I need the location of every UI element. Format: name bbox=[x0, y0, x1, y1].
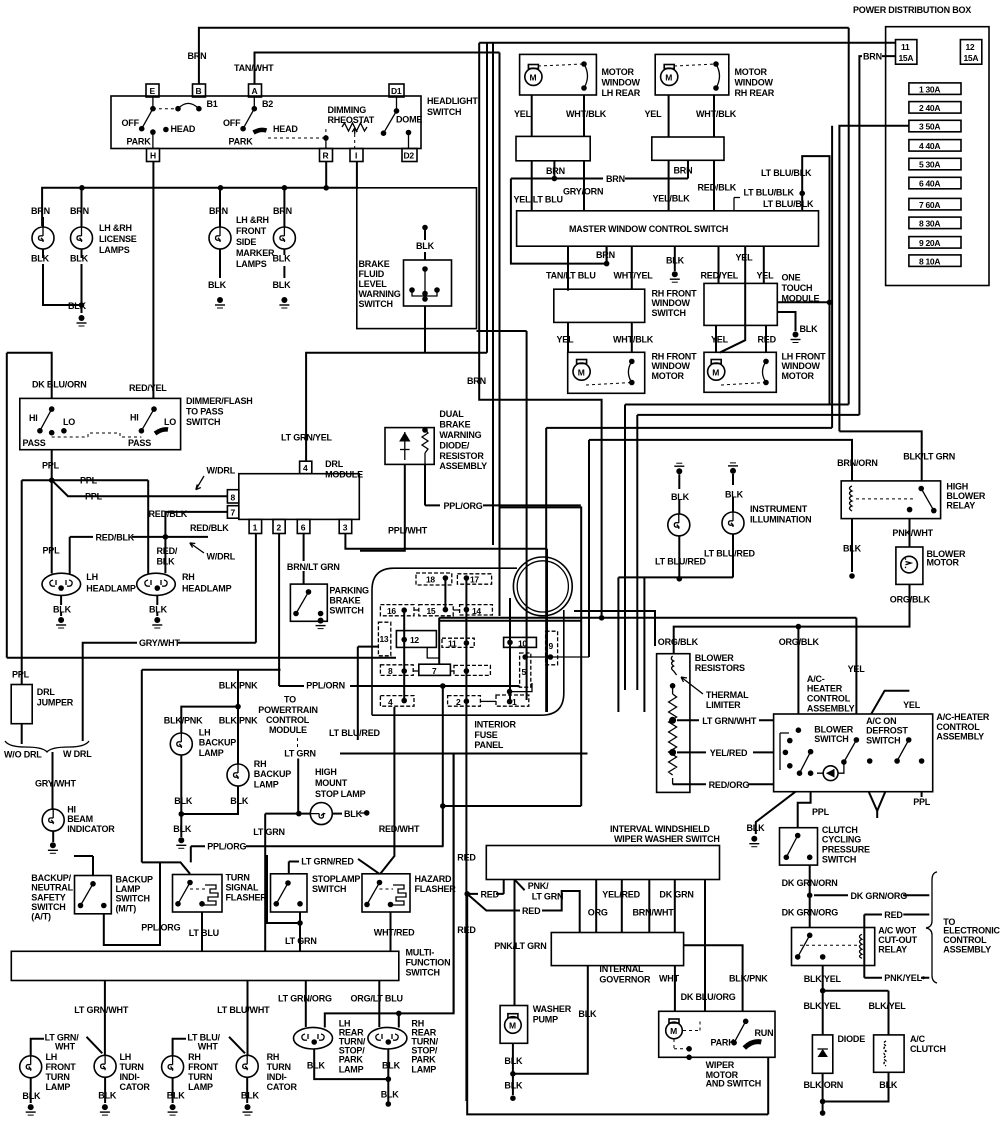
fuse 9 20A bbox=[909, 237, 961, 249]
svg-text:SWITCH: SWITCH bbox=[652, 308, 686, 318]
LH front turn lamp bbox=[20, 1032, 80, 1115]
wire maze vertical x589 bbox=[588, 440, 590, 657]
svg-text:AND SWITCH: AND SWITCH bbox=[706, 1078, 762, 1088]
svg-text:BLK/PNK: BLK/PNK bbox=[729, 974, 768, 984]
RH rear motor wires YEL / WHT-BLK bbox=[645, 95, 737, 137]
LH turn indicator bbox=[87, 1037, 151, 1115]
svg-text:LT GRN: LT GRN bbox=[285, 936, 317, 946]
svg-text:SWITCH: SWITCH bbox=[312, 884, 346, 894]
DRL pin 4 bbox=[300, 461, 312, 474]
svg-text:BLK: BLK bbox=[157, 557, 176, 567]
svg-text:PPL: PPL bbox=[12, 670, 30, 680]
svg-text:CONTROL: CONTROL bbox=[807, 694, 851, 704]
svg-text:11: 11 bbox=[448, 638, 457, 648]
svg-text:LAMP: LAMP bbox=[339, 1064, 364, 1074]
RH rear turn/stop/park lamp bbox=[368, 1019, 439, 1107]
svg-text:LT BLU/RED: LT BLU/RED bbox=[329, 728, 381, 738]
motor window LH rear bbox=[520, 54, 641, 98]
ORG pin bbox=[588, 880, 608, 933]
wire BRN from terminal B to power box bbox=[188, 28, 849, 84]
svg-text:WASHER: WASHER bbox=[533, 1004, 572, 1014]
backup lamp switch (M/T) label bbox=[116, 875, 153, 914]
svg-text:15: 15 bbox=[427, 606, 436, 616]
svg-text:BRN: BRN bbox=[863, 52, 882, 62]
svg-text:CLUTCH: CLUTCH bbox=[822, 825, 858, 835]
svg-text:BLK: BLK bbox=[578, 1009, 597, 1019]
svg-text:LT BLU/BLK: LT BLU/BLK bbox=[761, 168, 812, 178]
svg-text:LAMP: LAMP bbox=[411, 1064, 436, 1074]
fuse 6i bbox=[454, 665, 490, 676]
svg-text:BLK: BLK bbox=[416, 241, 435, 251]
svg-text:GRY/ORN: GRY/ORN bbox=[563, 187, 603, 197]
GRY/WHT label and HI BEAM INDICATOR bbox=[35, 779, 115, 854]
svg-text:BRN/ORN: BRN/ORN bbox=[837, 458, 878, 468]
svg-text:ILLUMINATION: ILLUMINATION bbox=[750, 514, 811, 524]
svg-text:HAZARD: HAZARD bbox=[415, 874, 452, 884]
svg-text:A: A bbox=[252, 86, 258, 96]
svg-text:LT GRN/ORG: LT GRN/ORG bbox=[278, 994, 332, 1004]
svg-text:BLK/YEL: BLK/YEL bbox=[869, 1001, 907, 1011]
wires down to master switch bbox=[532, 160, 737, 211]
svg-text:HI: HI bbox=[29, 413, 38, 423]
svg-text:OFF: OFF bbox=[223, 118, 241, 128]
YEL wire from y618 down to AC assembly bbox=[848, 618, 866, 714]
svg-text:W/O DRL: W/O DRL bbox=[4, 750, 42, 760]
svg-text:MULTI-: MULTI- bbox=[406, 948, 435, 958]
svg-text:SWITCH: SWITCH bbox=[329, 605, 363, 615]
svg-text:MOUNT: MOUNT bbox=[315, 778, 348, 788]
svg-text:16: 16 bbox=[387, 606, 396, 616]
fuse 8 30A bbox=[909, 217, 961, 229]
svg-text:WHT/BLK: WHT/BLK bbox=[566, 109, 607, 119]
svg-text:YEL/LT BLU: YEL/LT BLU bbox=[514, 195, 563, 205]
svg-text:MASTER WINDOW CONTROL SWITC: MASTER WINDOW CONTROL SWITCH bbox=[569, 224, 728, 234]
blower resistors bbox=[657, 653, 745, 793]
interior fuse panel label bbox=[474, 719, 516, 750]
svg-text:14: 14 bbox=[472, 606, 481, 616]
ORG/BLK wire into blower switch bbox=[779, 627, 820, 714]
svg-text:BRN: BRN bbox=[467, 376, 486, 386]
fuse 12 15A bbox=[960, 40, 981, 65]
svg-text:LH REAR: LH REAR bbox=[602, 88, 641, 98]
wire from I down to brake warning box bbox=[356, 162, 358, 190]
BRN wire joining connectors bbox=[511, 160, 693, 184]
WHT/YEL pin bbox=[614, 246, 654, 289]
svg-text:BLK: BLK bbox=[273, 280, 292, 290]
PNK/WHT wire to blower motor bbox=[892, 519, 933, 547]
svg-text:YEL/BLK: YEL/BLK bbox=[653, 194, 691, 204]
svg-text:DIMMER/FLASH: DIMMER/FLASH bbox=[186, 396, 253, 406]
svg-text:TAN/LT BLU: TAN/LT BLU bbox=[546, 270, 596, 280]
svg-text:3: 3 bbox=[343, 523, 348, 533]
svg-text:RH REAR: RH REAR bbox=[735, 88, 775, 98]
svg-text:LAMP: LAMP bbox=[188, 1082, 213, 1092]
wire from DRL pin 2 PPL/ORN bbox=[279, 534, 345, 691]
fuse 1 30A bbox=[909, 83, 961, 95]
wire maze horizontal y440 BRN/ORN to relay bbox=[589, 440, 852, 481]
PPL wires from dimmer bbox=[12, 450, 227, 685]
svg-text:MODULE: MODULE bbox=[325, 470, 363, 480]
YEL/RED tap bbox=[677, 748, 774, 758]
svg-text:DK GRN/ORG: DK GRN/ORG bbox=[851, 891, 908, 901]
svg-text:INDI-: INDI- bbox=[120, 1072, 140, 1082]
svg-text:LT BLU/WHT: LT BLU/WHT bbox=[217, 1005, 270, 1015]
svg-text:H: H bbox=[150, 151, 156, 161]
svg-text:LO: LO bbox=[63, 417, 75, 427]
svg-text:M: M bbox=[578, 367, 585, 377]
fuse 7 60A bbox=[909, 198, 961, 210]
svg-text:DUAL: DUAL bbox=[439, 409, 464, 419]
svg-text:RED/WHT: RED/WHT bbox=[379, 824, 420, 834]
svg-text:D2: D2 bbox=[404, 151, 415, 161]
svg-text:BLK: BLK bbox=[504, 1080, 523, 1090]
svg-text:CATOR: CATOR bbox=[267, 1082, 298, 1092]
washer pump bbox=[500, 1004, 572, 1101]
svg-text:INDI-: INDI- bbox=[267, 1072, 287, 1082]
svg-text:12: 12 bbox=[966, 42, 975, 52]
svg-text:LO: LO bbox=[164, 417, 176, 427]
DRL pin 3 bbox=[339, 519, 352, 533]
svg-text:PPL/ORN: PPL/ORN bbox=[306, 681, 345, 691]
DRL pin 1 bbox=[249, 519, 262, 533]
fuse 16 bbox=[380, 605, 414, 616]
wire vertical x493 bbox=[492, 43, 494, 545]
svg-text:TURN: TURN bbox=[46, 1072, 70, 1082]
svg-text:FLUID: FLUID bbox=[359, 269, 385, 279]
svg-text:10: 10 bbox=[518, 638, 527, 648]
multifn pin ORG/LT BLU bbox=[351, 981, 403, 1028]
RH license lamp bbox=[70, 188, 93, 313]
svg-text:MOTOR: MOTOR bbox=[782, 371, 815, 381]
line y658 from left rail bbox=[7, 657, 396, 659]
svg-text:RH: RH bbox=[267, 1052, 280, 1062]
governor bottom pin WHT bbox=[659, 966, 680, 1012]
svg-text:MOTOR: MOTOR bbox=[927, 557, 960, 567]
ORG/BLK wire from blower motor bbox=[658, 584, 931, 653]
svg-text:ASSEMBLY: ASSEMBLY bbox=[936, 732, 984, 742]
svg-text:RESISTORS: RESISTORS bbox=[695, 663, 745, 673]
svg-text:BRN: BRN bbox=[596, 250, 615, 260]
right lamp bbox=[704, 463, 811, 578]
svg-text:2 40A: 2 40A bbox=[919, 103, 940, 113]
fuse 5 30A bbox=[909, 158, 961, 170]
svg-text:A/C: A/C bbox=[910, 1034, 926, 1044]
PPL wire from AC box to clutch switch bbox=[798, 792, 830, 828]
svg-text:DEFROST: DEFROST bbox=[866, 726, 908, 736]
BLK/YEL wire from relay bbox=[804, 966, 907, 1035]
svg-text:BLK: BLK bbox=[307, 1061, 326, 1071]
fuse 12 bbox=[396, 631, 439, 665]
svg-text:HEADLIGHT: HEADLIGHT bbox=[427, 96, 478, 106]
svg-text:A/C-HEATER: A/C-HEATER bbox=[936, 712, 990, 722]
svg-text:BRN: BRN bbox=[674, 166, 693, 176]
svg-text:INDICATOR: INDICATOR bbox=[67, 824, 115, 834]
stoplamp output LT GRN bbox=[267, 855, 317, 951]
svg-text:RED/BLK: RED/BLK bbox=[96, 532, 135, 542]
svg-text:SIDE: SIDE bbox=[236, 237, 256, 247]
svg-text:WINDOW: WINDOW bbox=[602, 78, 641, 88]
svg-text:PPL: PPL bbox=[913, 797, 931, 807]
RED rail x453 labels bbox=[454, 754, 477, 1014]
wire maze horizontal y428 bbox=[546, 427, 832, 429]
svg-text:BLK: BLK bbox=[273, 254, 292, 264]
svg-text:ORG/BLK: ORG/BLK bbox=[779, 637, 820, 647]
svg-text:YEL: YEL bbox=[645, 109, 663, 119]
svg-text:ONE: ONE bbox=[782, 273, 801, 283]
svg-text:W/DRL: W/DRL bbox=[207, 465, 236, 475]
YEL wire top right of AC box bbox=[871, 691, 921, 714]
svg-text:RH: RH bbox=[254, 759, 267, 769]
svg-text:RH: RH bbox=[188, 1052, 201, 1062]
governor right pin BLK/PNK bbox=[684, 945, 769, 1011]
wire from fuse 3 bbox=[839, 126, 909, 432]
fuse panel pass-through verticals bbox=[546, 549, 548, 712]
DK GRN pin bbox=[659, 880, 693, 933]
svg-text:CONTROL: CONTROL bbox=[943, 935, 987, 945]
svg-text:M: M bbox=[670, 1026, 677, 1036]
svg-text:18: 18 bbox=[426, 575, 435, 585]
one touch right edge wires bbox=[777, 300, 832, 343]
svg-text:E: E bbox=[150, 86, 156, 96]
svg-text:YEL: YEL bbox=[757, 270, 775, 280]
svg-text:YEL/RED: YEL/RED bbox=[602, 889, 640, 899]
terminal D1 bbox=[389, 84, 404, 97]
PPL/WHT wire from diode bbox=[360, 464, 428, 550]
svg-text:BRN: BRN bbox=[70, 206, 89, 216]
fuse panel internal column wires bbox=[444, 578, 446, 610]
svg-text:PASS: PASS bbox=[23, 438, 46, 448]
fuse 13 bbox=[378, 622, 390, 656]
brake fluid level warning switch bbox=[359, 225, 452, 353]
svg-text:DK GRN/ORG: DK GRN/ORG bbox=[782, 907, 839, 917]
svg-text:SIGNAL: SIGNAL bbox=[226, 882, 260, 892]
svg-text:FUNCTION: FUNCTION bbox=[406, 957, 451, 967]
DRL pin 2 bbox=[273, 519, 285, 533]
svg-text:WHT/BLK: WHT/BLK bbox=[613, 334, 654, 344]
wire from column to blower resistor feed bbox=[574, 611, 655, 646]
svg-text:TAN/WHT: TAN/WHT bbox=[234, 63, 274, 73]
svg-text:HIGH: HIGH bbox=[315, 767, 337, 777]
line into fuse 13 from left y646 bbox=[358, 647, 379, 740]
horizontal y686 PPL/ORN line bbox=[350, 683, 581, 846]
svg-text:BACKUP: BACKUP bbox=[254, 769, 291, 779]
svg-text:BLK: BLK bbox=[53, 605, 72, 615]
svg-text:PNK/WHT: PNK/WHT bbox=[892, 528, 933, 538]
RH turn indicator bbox=[229, 1037, 297, 1115]
svg-text:BLK: BLK bbox=[68, 301, 87, 311]
wire maze vertical x637 bbox=[636, 415, 638, 690]
svg-text:LAMP: LAMP bbox=[199, 748, 224, 758]
svg-text:LH FRONT: LH FRONT bbox=[782, 352, 827, 362]
multifn pin RH turn indicator bbox=[217, 981, 270, 1056]
svg-text:RUN: RUN bbox=[755, 1028, 774, 1038]
svg-text:HIGH: HIGH bbox=[946, 482, 968, 492]
svg-text:GRY/WHT: GRY/WHT bbox=[35, 779, 76, 789]
svg-text:RH FRONT: RH FRONT bbox=[652, 352, 698, 362]
svg-text:PASS: PASS bbox=[128, 438, 151, 448]
svg-text:PARK: PARK bbox=[127, 137, 152, 147]
svg-text:MODULE: MODULE bbox=[269, 725, 307, 735]
A/C on defrost switch contacts bbox=[841, 737, 924, 765]
svg-text:R: R bbox=[323, 151, 329, 161]
svg-text:WIPER: WIPER bbox=[706, 1060, 735, 1070]
svg-text:PNK/LT GRN: PNK/LT GRN bbox=[494, 941, 546, 951]
svg-text:LAMP: LAMP bbox=[254, 780, 279, 790]
svg-text:BLK: BLK bbox=[31, 254, 50, 264]
svg-text:BLK: BLK bbox=[800, 324, 819, 334]
svg-text:5 30A: 5 30A bbox=[919, 160, 940, 170]
svg-text:LT GRN: LT GRN bbox=[284, 748, 316, 758]
svg-text:RELAY: RELAY bbox=[946, 501, 975, 511]
svg-text:OFF: OFF bbox=[122, 118, 140, 128]
horizontal y577 to instrument lamps bbox=[618, 576, 733, 582]
svg-text:BLK: BLK bbox=[98, 1090, 117, 1100]
hazard flasher bbox=[362, 874, 456, 912]
governor bottom pin BLK to washer bbox=[513, 966, 597, 1074]
svg-text:PUMP: PUMP bbox=[533, 1014, 558, 1024]
svg-text:WHT/RED: WHT/RED bbox=[374, 928, 415, 938]
motor window RH rear bbox=[655, 54, 775, 98]
svg-text:M: M bbox=[530, 73, 537, 83]
stoplamp switch bbox=[271, 874, 361, 912]
svg-text:RED/BLK: RED/BLK bbox=[190, 523, 229, 533]
TAN/LT BLU pin bbox=[546, 246, 596, 290]
BLK/PNK wire net bbox=[142, 670, 281, 764]
svg-text:LAMP: LAMP bbox=[46, 1082, 71, 1092]
svg-text:BRN: BRN bbox=[273, 206, 292, 216]
wire from DRL pin 6 BRN/LT GRN bbox=[287, 534, 340, 585]
fuse 4 40A bbox=[909, 140, 961, 152]
svg-text:BLK: BLK bbox=[725, 489, 744, 499]
dimmer internals left bbox=[23, 406, 76, 448]
svg-text:WINDOW: WINDOW bbox=[652, 361, 691, 371]
dome switch bbox=[381, 97, 423, 148]
svg-text:GRY/WHT: GRY/WHT bbox=[139, 638, 180, 648]
wire TAN/WHT vertical runs bbox=[499, 53, 501, 617]
svg-text:LT GRN: LT GRN bbox=[253, 827, 285, 837]
svg-text:(A/T): (A/T) bbox=[31, 912, 51, 922]
svg-text:HEADLAMP: HEADLAMP bbox=[182, 584, 232, 594]
BLK ground pin under master switch bbox=[666, 246, 685, 282]
svg-text:BLK/YEL: BLK/YEL bbox=[804, 974, 842, 984]
svg-text:BLK: BLK bbox=[747, 823, 766, 833]
fuse panel outline bbox=[372, 568, 564, 715]
svg-text:FUSE: FUSE bbox=[474, 730, 497, 740]
svg-text:9: 9 bbox=[549, 641, 554, 651]
svg-text:BLK: BLK bbox=[230, 796, 249, 806]
svg-text:BLK: BLK bbox=[879, 1080, 898, 1090]
svg-text:BLK: BLK bbox=[173, 824, 192, 834]
svg-text:BACKUP: BACKUP bbox=[116, 875, 153, 885]
svg-text:PRESSURE: PRESSURE bbox=[822, 845, 870, 855]
svg-text:WHT/YEL: WHT/YEL bbox=[614, 270, 654, 280]
RED wire right of WOT relay bbox=[864, 910, 929, 983]
svg-text:MOTOR: MOTOR bbox=[602, 67, 635, 77]
svg-text:TO: TO bbox=[284, 695, 296, 705]
PPL/ORG feed wire to flasher bbox=[142, 670, 190, 874]
svg-text:FRONT: FRONT bbox=[46, 1062, 77, 1072]
svg-text:M: M bbox=[509, 1021, 516, 1031]
dimmer internals right bbox=[52, 406, 177, 448]
svg-text:FRONT: FRONT bbox=[236, 226, 267, 236]
RH front window motor bbox=[568, 352, 697, 394]
svg-text:BRN/WHT: BRN/WHT bbox=[633, 908, 675, 918]
BLK ground from AC box bbox=[747, 792, 796, 847]
park wire loop bbox=[325, 754, 454, 1028]
svg-text:WARNING: WARNING bbox=[359, 289, 401, 299]
wire TAN/WHT from terminal A bbox=[234, 53, 500, 85]
svg-text:BLK/LT GRN: BLK/LT GRN bbox=[903, 452, 955, 462]
RH front side marker lamp bbox=[273, 188, 296, 308]
LT GRN/WHT tap bbox=[677, 716, 774, 726]
DK BLU/ORN wire bbox=[7, 353, 87, 399]
svg-text:7: 7 bbox=[432, 666, 437, 676]
svg-text:13: 13 bbox=[380, 634, 389, 644]
svg-text:BLK: BLK bbox=[381, 1089, 400, 1099]
svg-text:BLK/PNK: BLK/PNK bbox=[164, 716, 203, 726]
svg-text:LICENSE: LICENSE bbox=[99, 234, 137, 244]
svg-text:BLK: BLK bbox=[22, 1091, 41, 1101]
LH front side marker lamp bbox=[208, 188, 231, 308]
svg-text:BRN/LT GRN: BRN/LT GRN bbox=[287, 562, 340, 572]
LT BLU wire from flasher bbox=[189, 912, 219, 951]
svg-text:BLK: BLK bbox=[149, 605, 168, 615]
LT GRN/RED wire into stoplamp switch bbox=[289, 857, 380, 874]
svg-text:RED/BLK: RED/BLK bbox=[149, 509, 188, 519]
svg-text:RED/: RED/ bbox=[157, 546, 178, 556]
svg-text:4 40A: 4 40A bbox=[919, 141, 940, 151]
svg-text:INTERIOR: INTERIOR bbox=[474, 719, 516, 729]
svg-text:7 60A: 7 60A bbox=[919, 200, 940, 210]
svg-text:WHT: WHT bbox=[659, 974, 680, 984]
W/DRL labels with arrows bbox=[196, 465, 236, 489]
svg-text:LT BLU: LT BLU bbox=[189, 928, 219, 938]
wire BRN from fuse 11 bbox=[859, 52, 895, 415]
PNK/LT GRN pin bbox=[494, 880, 563, 1006]
svg-text:PPL/ORG: PPL/ORG bbox=[141, 923, 180, 933]
svg-text:B1: B1 bbox=[207, 99, 218, 109]
svg-text:STOP LAMP: STOP LAMP bbox=[315, 789, 366, 799]
svg-text:ASSEMBLY: ASSEMBLY bbox=[807, 704, 855, 714]
fuse 2i bbox=[448, 696, 496, 707]
brake fluid warning outer loop bbox=[357, 188, 477, 329]
one touch module bbox=[704, 273, 819, 326]
fuse 9i bbox=[546, 631, 558, 665]
PPL/ORG label upper bbox=[191, 842, 444, 863]
fuse 18 bbox=[416, 573, 452, 585]
svg-text:LH: LH bbox=[120, 1052, 132, 1062]
headlight switch internal contacts B2 bbox=[223, 97, 329, 148]
svg-text:HEAD: HEAD bbox=[273, 124, 298, 134]
svg-text:RED/YEL: RED/YEL bbox=[129, 383, 167, 393]
wire maze horizontal y431 BLK/LT GRN to relay bbox=[839, 431, 921, 481]
W/O DRL - W DRL brace bbox=[4, 741, 92, 809]
svg-text:HEATER: HEATER bbox=[807, 684, 843, 694]
svg-text:SWITCH: SWITCH bbox=[116, 894, 150, 904]
M/T switch loop wire PPL/ORG bbox=[104, 862, 181, 945]
label LH & RH LICENSE LAMPS bbox=[99, 223, 137, 255]
fuse 8i bbox=[380, 665, 418, 676]
wire maze horizontal y404 bbox=[625, 404, 849, 406]
BRN/ORN label bbox=[837, 458, 878, 468]
svg-text:YEL: YEL bbox=[848, 664, 866, 674]
svg-text:M: M bbox=[712, 367, 719, 377]
headlight switch internal contacts B1 bbox=[122, 97, 218, 149]
LH rear turn/stop/park lamp bbox=[294, 1019, 389, 1080]
terminal D2 bbox=[402, 149, 417, 162]
svg-text:D1: D1 bbox=[391, 86, 402, 96]
internal governor bbox=[551, 933, 683, 985]
